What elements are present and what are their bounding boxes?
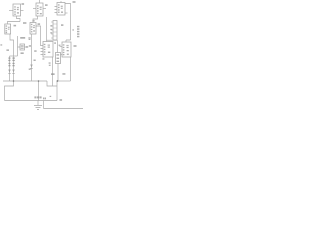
junction dot rail center [38,80,40,82]
wire U2 right pin [43,8,46,10]
label U3 refdes [73,1,76,3]
wire left feed vertical [18,36,21,56]
wire net to U4 top [8,22,21,25]
wire U5 bottom chain [31,34,33,81]
wire X1 bottom to rail [57,64,59,82]
ground symbol bars [34,106,42,110]
wire rail loop bottom left [5,81,14,101]
ic U1 [13,4,21,16]
text U1 part number [17,7,19,8]
wire rail to bus center [38,81,40,101]
ground symbol stem [37,101,39,106]
wire U2 top pin [39,0,41,3]
text U7 part number [66,45,68,46]
ic U7 [62,42,71,57]
component Y1 [20,44,25,50]
wire bus drop to bottom line [43,101,45,109]
label bus net name [34,96,36,98]
ic U5 [30,23,36,35]
label net H [23,22,26,24]
text U7 pin names [63,44,65,45]
label U4 refdes [14,25,17,27]
wire J1 bottom to U6 top net [47,39,58,41]
ic U2 [36,3,43,16]
label right of bus corner [60,99,63,101]
wire U5 right pin to U6 [36,26,43,46]
label above Y1 [20,37,25,39]
wire U2 bottom to U5 top [33,16,38,23]
wire U1 right pin [21,10,24,12]
label U5 refdes [38,23,41,25]
label left mid [6,49,9,51]
ic U6 [43,42,53,58]
wire U4 bottom jog [10,34,14,56]
text U1 pin names [14,6,16,7]
text chain A labels [8,57,10,58]
wire bottom long line [44,108,84,110]
label below U6 [42,58,44,59]
label vertical net name right [77,26,79,28]
diode DB symbol [12,70,14,74]
wire U7 left stub [60,46,63,48]
wire U1 left pin [9,10,13,12]
wire J1 down to X1 top [57,40,59,52]
label right of Y1 [26,46,28,48]
label below Y1 [21,52,24,54]
wire U3 left pins [55,7,58,13]
diode DC symbol mid chain [30,65,32,69]
text chain B labels [12,57,15,58]
wire U3 right pin [65,12,68,14]
bus bottom [5,100,58,102]
wire X1 right pin to U7 [61,54,63,56]
label mid chain value4 [29,69,31,70]
wire rail jog down right [47,81,57,86]
text U2 part number [40,7,42,8]
wire U3 top to right rail [61,1,71,40]
text Y1 value [21,45,24,46]
wire U6 left pins [41,49,44,55]
label polarity mark [72,29,74,30]
connector J1 [53,21,57,41]
text U2 pin names [37,5,39,6]
label right of U6 [54,42,56,43]
wire right rail into U7 top [66,40,71,42]
diode chain DA [9,56,11,81]
ic U4 [5,24,11,34]
label mid chain value3 [34,60,36,62]
text U5 pin names [31,24,33,25]
wire chain feed horizontal [10,55,18,57]
label U7 left pin [59,45,61,46]
text U3 pin names [58,4,60,5]
wire J1 pin dividers [51,22,53,38]
ground rail right [57,80,71,82]
ic U3 [57,3,65,16]
diode chain DB [13,56,15,81]
ground rail left [3,80,47,82]
wire U7 bottom to rail [70,57,72,81]
text U4 pin names [6,25,8,26]
label above U5 [33,20,35,21]
label above rail right [62,73,65,75]
text U3 part number [61,6,63,7]
text U6 pin names [44,44,46,45]
text X1 rows [57,54,60,55]
label bus right text [43,98,44,100]
wire jog to bus corner [56,86,58,101]
text U6 part number [48,45,50,46]
crystal X1 [56,53,61,64]
label U2 refdes [45,4,48,6]
wire U1 bottom to net [17,16,21,22]
label beside U6 bottom wire [49,62,51,63]
wire U6 bottom to rail [52,57,54,86]
label mid chain top [28,37,30,38]
label U1 refdes [22,3,25,5]
label U7 refdes right [74,45,77,47]
text U4 part number [8,27,10,28]
label J1 pin texts [50,25,52,26]
junction dot chain B [13,80,15,82]
junction dot rail [57,80,59,82]
wire U2 left pin [33,8,36,10]
wire Y1 right pin [25,46,27,48]
label above rail left [51,73,55,75]
label J1 refdes [61,24,63,26]
diode DA symbol [8,70,10,74]
label mid chain value2 [34,50,36,52]
label tiny above bus [50,96,52,97]
label far left tick [0,44,2,45]
label mid chain value1 [29,45,31,47]
text U5 part number [33,25,35,26]
wire U2 area down to U6 top [46,17,48,42]
